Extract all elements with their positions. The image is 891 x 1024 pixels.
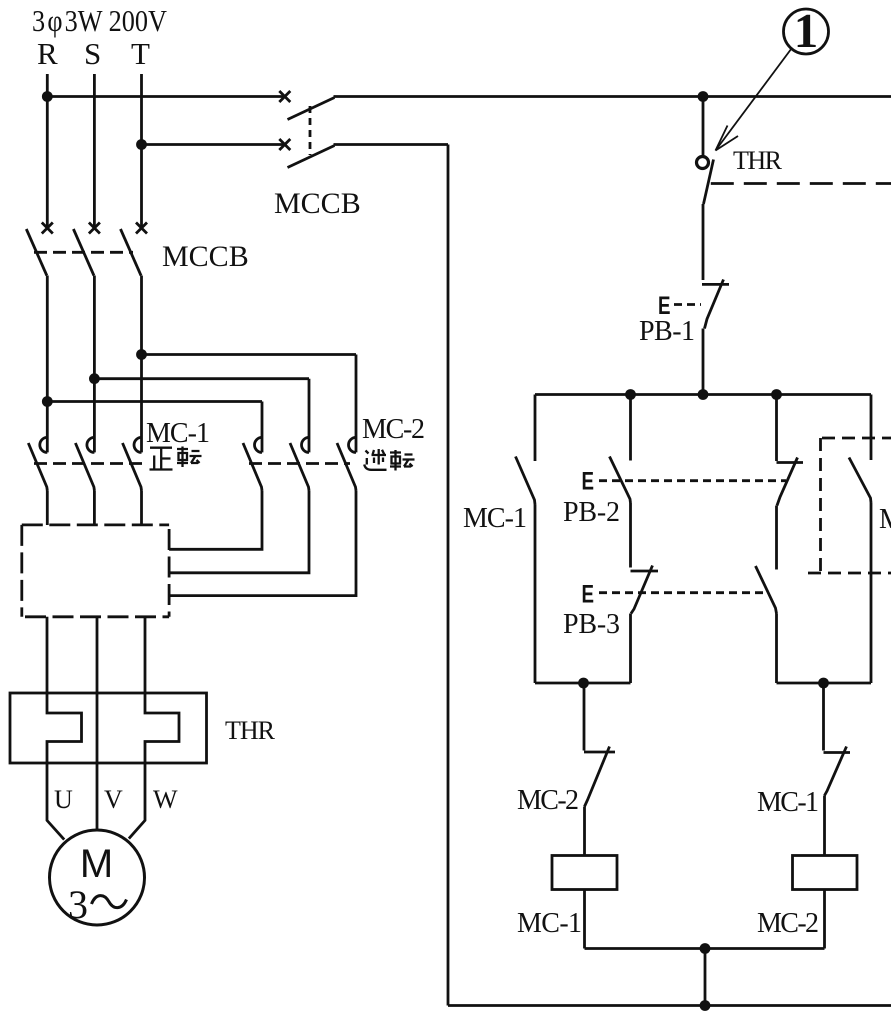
- wire R tap horizontal: [47, 400, 262, 403]
- wire PB rung middle: [629, 503, 632, 568]
- wire bottom return line: [448, 1004, 891, 1007]
- svg-text:MC-1: MC-1: [463, 503, 527, 534]
- thermal relay heater W: [145, 693, 179, 763]
- pushbutton PB-1 bar: [702, 283, 729, 286]
- svg-text:1: 1: [794, 3, 819, 58]
- motor tilde wave: [92, 896, 127, 908]
- wire MC-2 self-hold rung upper: [870, 395, 873, 461]
- wire T below breaker: [140, 276, 143, 453]
- wire control top bus: [535, 393, 871, 396]
- breaker MCCB main linkage dashed: [34, 251, 133, 254]
- wire coils bus drop: [704, 949, 707, 1006]
- wire right rung upper: [775, 395, 778, 462]
- svg-text:R: R: [37, 36, 58, 71]
- svg-text:THR: THR: [733, 146, 783, 175]
- junction dot T tap: [136, 349, 147, 360]
- contactor MC-1 pole2 hook: [87, 437, 95, 452]
- contactor MC-1 pole2 blade: [75, 443, 94, 491]
- wire MC-2 coil to bottom: [823, 890, 826, 949]
- junction dot bottom return: [700, 1000, 711, 1011]
- pushbutton PB-2 NC interlock bar: [777, 461, 804, 464]
- wire U below box: [46, 617, 49, 693]
- wire second bus right segment: [334, 143, 449, 146]
- contactor MC-1 pole1 hook: [40, 437, 47, 452]
- wire THR to PB-1: [702, 204, 705, 280]
- wire R vertical: [46, 74, 49, 228]
- wire T vertical: [140, 74, 143, 228]
- svg-text:PB-2: PB-2: [563, 497, 620, 528]
- svg-text:S: S: [84, 36, 101, 71]
- wire MC-2 pole1 feed vertical: [261, 402, 264, 453]
- svg-text:E: E: [582, 581, 595, 609]
- wire right rung middle: [775, 506, 778, 570]
- coil MC-1: [552, 856, 617, 890]
- wire MC-1 coil to bottom: [583, 890, 586, 949]
- contactor MC-1 linkage dashed: [34, 462, 146, 465]
- contactor MC-2 pole2 blade: [290, 443, 309, 491]
- contactor MC-2 pole1 hook: [255, 437, 263, 452]
- wire MC-2 pole1 to box: [169, 491, 262, 550]
- svg-text:MC-1: MC-1: [757, 787, 819, 818]
- wire right rung bottom bus: [777, 682, 872, 685]
- wire coils bottom bus: [585, 947, 825, 950]
- thermal relay phase V through: [96, 693, 99, 763]
- wire S vertical: [93, 74, 96, 228]
- wire T tap horizontal: [142, 353, 357, 356]
- pushbutton PB-3 NC blade: [631, 566, 653, 614]
- label kanji seiten (forward): [150, 447, 202, 470]
- wire MC-1 pole2 to box: [93, 491, 96, 526]
- wire MC-1 pole3 to box: [140, 491, 143, 526]
- breaker MCCB main pole T blade: [121, 229, 142, 276]
- wire S tap horizontal: [94, 377, 309, 380]
- wire control feed down: [702, 97, 705, 157]
- relay contact THR reset circle: [697, 157, 709, 169]
- contactor MC-1 pole1 blade: [28, 443, 47, 491]
- wire to MC-2 coil: [823, 796, 826, 856]
- contact MC-1 interlock NC bar: [824, 751, 851, 754]
- pushbutton PB-3 NC bar: [631, 570, 659, 573]
- wire MC-2 pole2 feed vertical: [308, 379, 311, 453]
- wire left rung bottom bus: [535, 682, 631, 685]
- linkage dashes PB-1: [674, 303, 701, 306]
- wire MC-1 pole1 to box: [46, 491, 49, 526]
- callout circle 1: [784, 9, 829, 54]
- wire MC-1 rung lower: [534, 505, 537, 684]
- wire PB rung upper: [629, 395, 632, 461]
- contactor MC-2 pole3 blade: [337, 443, 356, 491]
- breaker MCCB control linkage dashed: [309, 106, 312, 155]
- svg-text:MC-1: MC-1: [146, 418, 210, 449]
- svg-text:3: 3: [68, 882, 88, 927]
- contactor MC-2 linkage dashed: [249, 462, 350, 465]
- contact MC-1 interlock NC blade: [825, 747, 847, 796]
- wire MC-2 pole3 to box: [169, 491, 356, 596]
- callout arrow line: [716, 49, 792, 151]
- relay contact THR blade: [704, 160, 714, 205]
- svg-text:E: E: [582, 468, 595, 496]
- wire second bus left segment: [142, 143, 284, 146]
- pushbutton PB-2 NC interlock blade: [777, 458, 798, 506]
- thermal relay heater U: [47, 693, 82, 763]
- breaker MCCB main pole R fixed contact x: [42, 223, 53, 234]
- wire U to motor: [47, 763, 64, 840]
- wire PB rung lower: [629, 614, 632, 684]
- pushbutton PB-3 NO blade: [756, 566, 777, 614]
- junction dot S tap: [89, 373, 100, 384]
- breaker MCCB control pole 2 blade: [288, 146, 335, 168]
- junction dot bus right: [771, 389, 782, 400]
- wire MC-1 rung upper: [534, 395, 537, 462]
- svg-text:THR: THR: [225, 716, 276, 745]
- svg-text:PB-1: PB-1: [639, 316, 695, 347]
- wire PB-1 to bus: [702, 329, 705, 395]
- wire right rung lower: [775, 614, 778, 684]
- pushbutton PB-2 blade: [610, 457, 631, 504]
- relay THR linkage dashed: [711, 182, 891, 185]
- wire V below box: [96, 617, 99, 693]
- wire S below breaker: [93, 276, 96, 453]
- coil MC-2: [793, 856, 858, 890]
- contactor MC-2 pole3 hook: [349, 437, 356, 452]
- junction dot T-bus: [136, 139, 147, 150]
- wire V to motor: [96, 763, 99, 830]
- contactor MC-2 pole2 hook: [302, 437, 310, 452]
- svg-text:MCCB: MCCB: [162, 240, 249, 273]
- contactor MC-2 pole1 blade: [243, 443, 262, 491]
- wire MC-2 pole2 to box: [169, 491, 309, 573]
- wire MC-2 self-hold rung lower: [870, 503, 873, 684]
- svg-text:M: M: [80, 842, 113, 886]
- svg-text:W: W: [153, 785, 178, 814]
- wire top bus right segment to right edge: [334, 95, 891, 98]
- svg-text:MC-2: MC-2: [517, 785, 579, 816]
- contactor MC-1 pole3 hook: [134, 437, 142, 452]
- svg-text:U: U: [54, 785, 73, 814]
- callout arrowhead: [716, 126, 739, 151]
- wire right coil branch upper: [822, 683, 825, 751]
- svg-text:MC-2: MC-2: [757, 908, 819, 939]
- svg-text:T: T: [131, 36, 150, 71]
- svg-text:PB-3: PB-3: [563, 609, 620, 640]
- junction dot left rung: [578, 678, 589, 689]
- breaker MCCB control pole 1 fixed contact x: [279, 91, 290, 102]
- wire left coil branch upper: [583, 683, 586, 751]
- junction dot R tap: [42, 396, 53, 407]
- junction dot coils bus: [700, 943, 711, 954]
- wire W to motor: [129, 763, 145, 839]
- breaker MCCB main pole S fixed contact x: [89, 223, 100, 234]
- wire to MC-1 coil: [583, 807, 586, 856]
- contact MC-2 interlock NC bar: [584, 751, 615, 754]
- breaker MCCB control pole 2 fixed contact x: [279, 139, 290, 150]
- svg-text:MC-1: MC-1: [517, 908, 582, 939]
- breaker MCCB main pole S blade: [73, 229, 94, 276]
- linkage dashes PB-3 to NO: [599, 591, 765, 594]
- junction dot right rung: [818, 678, 829, 689]
- label kanji gyakuten (reverse): [364, 449, 414, 471]
- wire W below box: [144, 617, 147, 693]
- contact MC-2 interlock NC blade: [585, 747, 610, 807]
- junction dot bus left: [625, 389, 636, 400]
- linkage dashes PB-2 to interlock: [599, 479, 786, 482]
- motor M circle: [50, 830, 145, 925]
- junction dot bus center: [698, 389, 709, 400]
- breaker MCCB main pole R blade: [26, 229, 47, 276]
- svg-text:MC-2: MC-2: [362, 414, 425, 445]
- contact MC-1 self-hold blade: [516, 457, 536, 505]
- pushbutton PB-1 blade: [705, 280, 724, 329]
- junction dot control tap: [698, 91, 709, 102]
- svg-text:MCCB: MCCB: [274, 187, 361, 220]
- hidden-connection dashed box: [22, 525, 169, 617]
- thermal relay THR box: [10, 693, 207, 763]
- contactor MC-1 pole3 blade: [123, 443, 142, 491]
- breaker MCCB control pole 1 blade: [288, 98, 335, 120]
- emphasis dashed box MC-2 contact: [808, 438, 891, 573]
- breaker MCCB main pole T fixed contact x: [136, 223, 147, 234]
- wire control feed long vertical left: [447, 145, 450, 1006]
- junction dot R-bus: [42, 91, 53, 102]
- svg-text:V: V: [104, 785, 123, 814]
- wire top bus left segment: [47, 95, 283, 98]
- wire R below breaker: [46, 276, 49, 453]
- wire MC-2 pole3 feed vertical: [355, 355, 358, 453]
- svg-text:3 φ 3W 200V: 3 φ 3W 200V: [32, 3, 168, 38]
- svg-text:MC-2: MC-2: [879, 504, 891, 535]
- contact MC-2 self-hold blade: [849, 458, 871, 503]
